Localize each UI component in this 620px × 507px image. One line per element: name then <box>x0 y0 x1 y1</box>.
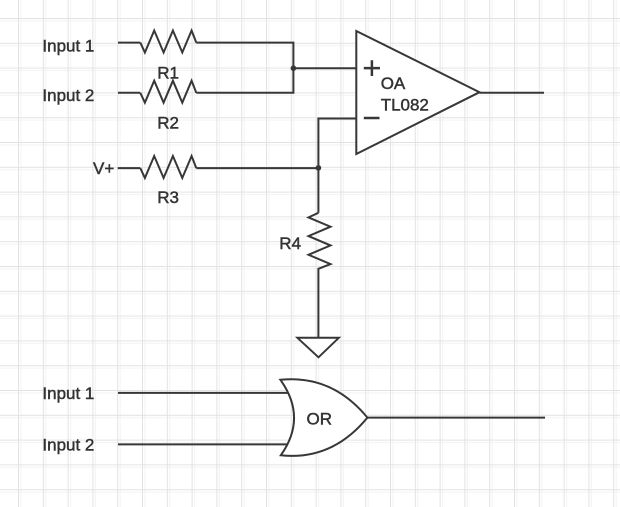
node B junction dot <box>316 165 322 171</box>
resistor R4 <box>309 213 331 271</box>
svg-text:Input 1: Input 1 <box>42 384 94 403</box>
svg-text:Input 2: Input 2 <box>42 436 94 455</box>
resistor R3 <box>140 156 196 178</box>
OR gate U2 <box>280 379 367 456</box>
wire: node B down to R4 <box>317 168 319 213</box>
svg-text:V+: V+ <box>93 159 114 178</box>
ground <box>297 338 338 358</box>
wire: node A to op-amp noninverting input <box>293 67 356 69</box>
op-amp minus input marking <box>364 117 380 120</box>
wire: Input 1 to R1 <box>118 42 140 44</box>
svg-text:R4: R4 <box>279 234 301 253</box>
wire: OR gate output <box>367 417 545 419</box>
wire: Input 1 to OR gate <box>118 392 290 394</box>
svg-text:Input 2: Input 2 <box>42 86 94 105</box>
svg-text:R3: R3 <box>157 188 179 207</box>
wire: R2 to node A <box>196 68 293 93</box>
wire: R3 to node B <box>196 167 318 169</box>
wire: R4 to ground <box>317 271 319 337</box>
svg-text:Input 1: Input 1 <box>42 36 94 55</box>
svg-text:R2: R2 <box>157 113 179 132</box>
svg-text:R1: R1 <box>157 64 179 83</box>
resistor R2 <box>140 81 196 103</box>
resistor R1 <box>140 31 196 53</box>
wire: inverting input to node B <box>318 119 356 168</box>
svg-text:OR: OR <box>307 410 333 429</box>
node A junction dot <box>291 65 297 71</box>
wire: Input 2 to OR gate <box>118 443 290 445</box>
op-amp plus input marking <box>364 60 380 76</box>
wire: R1 to node A <box>196 43 293 69</box>
op-amp U1 OA TL082 <box>356 31 479 154</box>
svg-text:OA: OA <box>381 74 406 93</box>
wire: V+ to R3 <box>118 167 141 169</box>
svg-text:TL082: TL082 <box>381 95 429 114</box>
wire: Input 2 to R2 <box>118 92 140 94</box>
wire: op-amp output <box>480 92 545 94</box>
